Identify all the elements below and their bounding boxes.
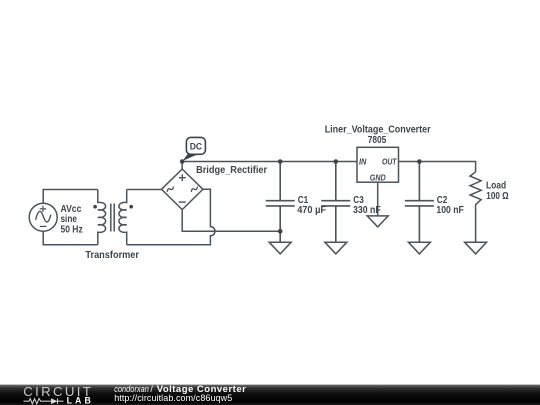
- svg-text:IN: IN: [359, 157, 367, 167]
- svg-text:330 nF: 330 nF: [353, 205, 381, 215]
- svg-text:http://circuitlab.com/c86uqw5: http://circuitlab.com/c86uqw5: [114, 393, 232, 403]
- svg-text:7805: 7805: [368, 134, 387, 145]
- svg-text:100 nF: 100 nF: [436, 205, 464, 216]
- svg-text:AVcc: AVcc: [61, 204, 82, 215]
- svg-text:Bridge_Rectifier: Bridge_Rectifier: [196, 165, 267, 176]
- svg-text:100 Ω: 100 Ω: [486, 190, 508, 201]
- svg-text:DC: DC: [190, 141, 203, 152]
- svg-text:C2: C2: [437, 194, 448, 205]
- svg-text:C1: C1: [298, 194, 309, 205]
- svg-text:C3: C3: [353, 194, 364, 205]
- svg-text:470 µF: 470 µF: [297, 205, 326, 216]
- svg-text:sine: sine: [61, 214, 77, 225]
- svg-text:OUT: OUT: [382, 157, 398, 167]
- svg-text:LAB: LAB: [67, 395, 91, 405]
- svg-text:Transformer: Transformer: [85, 250, 139, 261]
- svg-text:GND: GND: [370, 173, 386, 183]
- svg-text:Load: Load: [486, 180, 506, 191]
- svg-text:50 Hz: 50 Hz: [61, 224, 84, 235]
- svg-text:Liner_Voltage_Converter: Liner_Voltage_Converter: [325, 124, 431, 134]
